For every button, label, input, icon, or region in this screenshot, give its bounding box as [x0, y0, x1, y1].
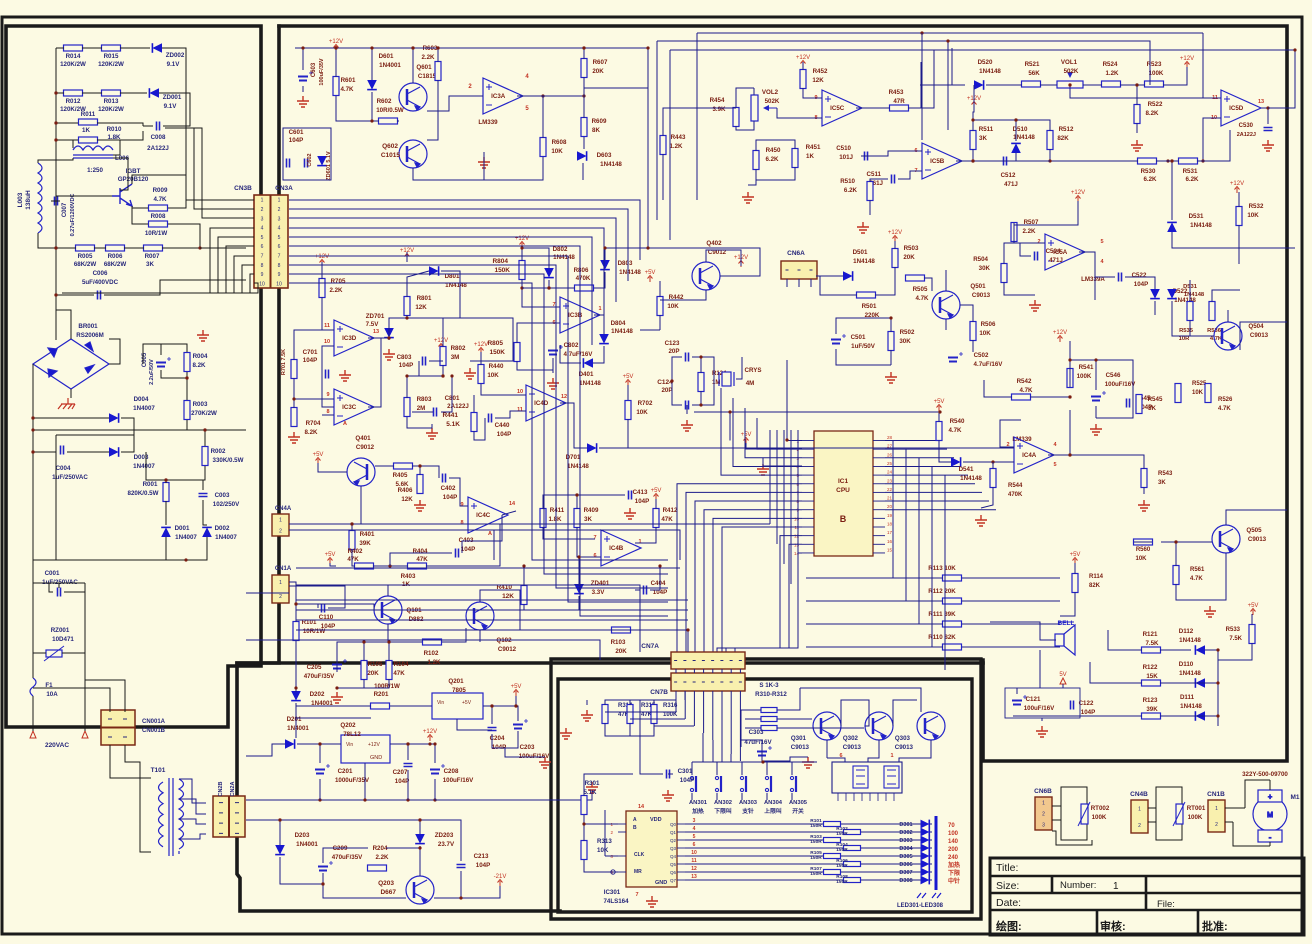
junction — [321, 882, 324, 885]
wire gnd pin4 — [763, 458, 802, 466]
svg-text:C9013: C9013 — [895, 744, 914, 751]
svg-text:C530: C530 — [1239, 123, 1254, 129]
svg-text:C9013: C9013 — [843, 744, 862, 751]
svg-text:1N4007: 1N4007 — [133, 463, 155, 470]
wire IC5D fb — [1203, 118, 1221, 161]
svg-text:CN6B: CN6B — [1034, 788, 1052, 795]
wire — [406, 252, 408, 262]
svg-text:File:: File: — [1157, 899, 1175, 910]
op-amp IC3C — [334, 389, 374, 425]
wire — [33, 505, 56, 560]
svg-text:R521: R521 — [1025, 61, 1040, 68]
svg-text:68K/2W: 68K/2W — [74, 261, 97, 268]
ground bus — [586, 782, 598, 793]
wire — [146, 452, 166, 480]
wire — [419, 846, 421, 848]
resistor R560 — [1134, 539, 1153, 545]
junction — [294, 686, 297, 689]
svg-text:23.7V: 23.7V — [438, 841, 455, 848]
svg-text:2.2K: 2.2K — [421, 54, 435, 61]
wire Q505 emit — [1176, 553, 1226, 600]
wire IC5D out — [1268, 50, 1295, 108]
svg-text:5: 5 — [693, 834, 696, 840]
wire gnd bus right — [435, 790, 592, 800]
svg-text:R201: R201 — [374, 691, 389, 698]
wire — [120, 131, 143, 140]
display board outer frame — [551, 659, 981, 919]
svg-text:4: 4 — [693, 826, 696, 832]
svg-text:R531: R531 — [1183, 168, 1198, 175]
svg-text:150R: 150R — [836, 847, 848, 853]
svg-text:CN2A: CN2A — [230, 781, 236, 796]
wire R110 left — [806, 646, 943, 648]
junction — [164, 478, 167, 481]
power +12V R452 — [801, 61, 806, 68]
wire Q301-Q302 net — [841, 700, 869, 726]
svg-text:1N4007: 1N4007 — [133, 405, 155, 412]
junction — [547, 286, 550, 289]
wire — [163, 120, 190, 126]
wire pin1 crystal — [787, 360, 802, 441]
resistor R121 — [1142, 647, 1161, 653]
wire R311 l — [745, 718, 761, 720]
wire C801 left — [412, 411, 433, 413]
svg-text:70: 70 — [948, 823, 955, 829]
wire R705 — [321, 262, 323, 279]
wire — [610, 629, 688, 631]
svg-text:Q601: Q601 — [416, 64, 432, 71]
wire IC4C out — [502, 511, 516, 515]
wire — [322, 414, 334, 416]
wire R454 top — [736, 88, 754, 108]
resistor R536 — [1209, 302, 1215, 321]
svg-text:CRYS: CRYS — [745, 367, 762, 374]
wire — [49, 583, 53, 592]
wire R544 top — [992, 462, 994, 469]
power +5V CPU — [744, 438, 749, 445]
wire to R801 — [389, 315, 407, 328]
svg-text:ZD203: ZD203 — [435, 832, 454, 839]
resistor R505 — [906, 275, 925, 281]
diode ZD002 — [152, 43, 162, 53]
svg-text:C007: C007 — [62, 202, 68, 217]
junction — [1170, 159, 1173, 162]
svg-text:C121: C121 — [1026, 696, 1041, 703]
junction — [699, 403, 702, 406]
wire IC5C out — [856, 107, 890, 109]
junction — [520, 286, 523, 289]
connector CN6B — [1035, 797, 1052, 830]
wire — [120, 47, 150, 49]
svg-text:Q302: Q302 — [843, 735, 859, 742]
wire CN7A-CN7B — [730, 669, 732, 673]
transistor Q601 — [399, 83, 427, 111]
wire button drop — [741, 762, 743, 775]
svg-text:5: 5 — [278, 235, 281, 241]
svg-text:1N4148: 1N4148 — [979, 68, 1001, 75]
wire CN3A fanout long — [289, 283, 668, 560]
svg-text:104P: 104P — [1081, 709, 1095, 716]
motor M1 — [1253, 790, 1287, 842]
junction — [278, 818, 281, 821]
junction — [433, 742, 436, 745]
wire IC4D-D701 — [560, 403, 587, 448]
svg-text:471J: 471J — [1049, 257, 1063, 264]
svg-text:D001: D001 — [175, 525, 190, 532]
svg-text:1N4001: 1N4001 — [287, 725, 309, 732]
wire to gnd — [505, 748, 545, 757]
wire button bot — [741, 793, 743, 800]
svg-text:R003: R003 — [193, 401, 208, 408]
wire R524-R523 — [1120, 84, 1145, 86]
wire R440-IC4D — [481, 384, 526, 395]
svg-text:R301: R301 — [585, 780, 600, 787]
svg-text:D203: D203 — [295, 832, 310, 839]
svg-text:+5V: +5V — [1070, 552, 1081, 558]
svg-text:1.2K: 1.2K — [1105, 70, 1119, 77]
wire ZD701 — [388, 328, 390, 338]
svg-text:审核:: 审核: — [1100, 919, 1126, 933]
junction — [991, 460, 994, 463]
wire CPU right bundle — [885, 509, 996, 511]
diode D601 — [367, 80, 377, 90]
junction — [699, 355, 702, 358]
resistor R526 — [1205, 384, 1211, 403]
wire — [166, 537, 207, 560]
wire — [32, 696, 34, 731]
wire C213 top — [420, 820, 461, 861]
junction — [387, 640, 390, 643]
ground R510 — [857, 222, 869, 233]
svg-text:R451: R451 — [806, 144, 821, 151]
wire D701-R702 — [599, 419, 628, 448]
junction — [1068, 83, 1071, 86]
wire CN3B pin up — [165, 128, 254, 218]
resistor R124 — [698, 373, 704, 392]
wire CPU pin bundle — [686, 492, 802, 652]
diode ZD601 — [317, 156, 327, 166]
svg-text:1.8K: 1.8K — [548, 516, 562, 523]
svg-text:+12V: +12V — [474, 342, 488, 348]
wire R806-D803 — [594, 272, 605, 288]
LED bus bar — [935, 816, 938, 890]
wire C546 top — [1070, 360, 1096, 390]
wire — [187, 429, 246, 431]
svg-text:CN4B: CN4B — [1130, 791, 1148, 798]
svg-text:C510: C510 — [836, 145, 851, 152]
svg-text:+12V: +12V — [1180, 56, 1194, 62]
wire CN3A fanout long — [289, 274, 668, 574]
wire to LED — [841, 839, 932, 841]
svg-text:7: 7 — [261, 253, 264, 259]
svg-text:C9013: C9013 — [972, 292, 991, 299]
wire vert bundle — [783, 430, 785, 564]
wire CPU right bundle — [885, 483, 975, 485]
wire CN3B pin up — [165, 128, 254, 200]
svg-text:10R: 10R — [1179, 336, 1190, 342]
wire D510 top — [973, 120, 1016, 141]
junction — [406, 742, 409, 745]
resistor R602 — [379, 118, 398, 124]
wire — [203, 480, 205, 490]
svg-text:150R: 150R — [810, 839, 822, 845]
wire IC301 out — [685, 823, 823, 825]
wire R506-C502 — [972, 340, 974, 352]
op-amp IC4C — [468, 497, 508, 533]
resistor R522 — [1134, 105, 1140, 124]
svg-text:C122: C122 — [1079, 700, 1094, 707]
wire — [412, 48, 414, 83]
wire +5V — [492, 696, 516, 706]
junction — [1068, 453, 1071, 456]
junction — [294, 602, 297, 605]
wire CN7A-CN7B — [684, 669, 686, 673]
resistor R104 — [386, 661, 392, 680]
svg-text:Vin: Vin — [437, 700, 444, 706]
svg-text:C303: C303 — [749, 729, 764, 736]
display pins — [838, 793, 894, 801]
svg-text:R006: R006 — [108, 253, 123, 260]
wire R301-IC301 — [584, 815, 618, 824]
svg-text:R411: R411 — [550, 507, 565, 514]
junction — [418, 464, 421, 467]
wire to LED — [841, 871, 932, 873]
svg-text:D304: D304 — [899, 846, 913, 852]
svg-text:104P: 104P — [476, 862, 490, 869]
wire CPU comb drop — [931, 466, 933, 647]
junction — [418, 818, 421, 821]
wire CN6B-RT002 b — [1052, 819, 1061, 821]
svg-text:RT002: RT002 — [1091, 805, 1110, 812]
svg-text:7.5K: 7.5K — [1145, 640, 1159, 647]
svg-text:7: 7 — [635, 892, 638, 898]
resistor R006 — [106, 245, 125, 251]
wire long h b — [296, 585, 640, 652]
svg-text:2: 2 — [1138, 823, 1141, 829]
wire R505-Q501 — [924, 278, 932, 291]
svg-text:R440: R440 — [489, 363, 504, 370]
wire R403 right — [426, 524, 500, 566]
svg-text:8: 8 — [278, 263, 281, 269]
wire R452-IC5C — [803, 88, 822, 98]
svg-text:5.1K: 5.1K — [446, 421, 460, 428]
svg-text:IC3B: IC3B — [568, 312, 583, 319]
svg-text:BELL: BELL — [1058, 620, 1075, 627]
svg-text:1N4148: 1N4148 — [600, 161, 622, 168]
svg-text:AN303: AN303 — [739, 800, 758, 806]
resistor R512 — [1047, 131, 1053, 150]
wire button bot — [716, 793, 718, 800]
diode D306 — [921, 860, 930, 869]
resistor R701 — [291, 360, 297, 379]
svg-text:R008: R008 — [151, 213, 166, 220]
svg-text:4: 4 — [278, 226, 281, 232]
wire CPU right bundle — [885, 500, 989, 502]
wire CN7B down — [693, 691, 695, 726]
junction — [520, 246, 523, 249]
wire C303 gnd — [762, 757, 808, 761]
resistor R503 — [892, 249, 898, 268]
wire R315 top — [629, 700, 631, 705]
wire Q505 coll — [1226, 510, 1287, 525]
svg-text:+12V: +12V — [1053, 330, 1067, 336]
wire R443 down — [662, 154, 664, 200]
svg-text:10R/1W: 10R/1W — [145, 230, 168, 237]
resistor R403 — [408, 563, 427, 569]
svg-text:R405: R405 — [393, 472, 408, 479]
wire low bundle — [296, 609, 688, 611]
svg-text:+: + — [1268, 794, 1272, 801]
wire R802 top — [442, 318, 444, 347]
wire R504 top — [1004, 243, 1014, 264]
svg-text:加热: 加热 — [947, 861, 960, 869]
svg-text:100uF/16V: 100uF/16V — [1105, 381, 1136, 388]
wire C209 — [322, 873, 324, 884]
ground C546 — [1090, 424, 1102, 435]
diode D201 — [285, 739, 295, 749]
svg-text:R004: R004 — [193, 353, 208, 360]
power +12V R541 — [1058, 336, 1063, 343]
wire into CN7A — [687, 630, 689, 652]
wire CN7A-CN7B — [703, 669, 705, 673]
transistor Q602 — [399, 140, 427, 168]
wire C110 — [296, 604, 318, 608]
junction — [203, 428, 206, 431]
wire R312 r — [777, 727, 864, 729]
wire — [162, 48, 186, 93]
junction — [54, 293, 57, 296]
wire Q501 emit — [945, 319, 947, 330]
svg-text:R504: R504 — [973, 256, 988, 263]
svg-text:R601: R601 — [341, 77, 356, 84]
diode D701 — [587, 443, 597, 453]
ground Q505 — [1204, 606, 1216, 617]
svg-text:104P: 104P — [289, 137, 303, 144]
wire R314 bot — [605, 723, 630, 736]
svg-text:D302: D302 — [899, 830, 912, 836]
svg-text:3.3V: 3.3V — [592, 589, 606, 596]
wire D701 right — [628, 447, 776, 449]
svg-text:D303: D303 — [899, 838, 912, 844]
svg-text:10: 10 — [691, 850, 697, 856]
svg-text:2A122J: 2A122J — [147, 145, 169, 152]
junction — [522, 564, 525, 567]
junction — [490, 704, 493, 707]
svg-text:10K: 10K — [636, 409, 648, 416]
junction — [971, 118, 974, 121]
resistor R702 — [625, 401, 631, 420]
capacitor C207 — [404, 764, 413, 767]
transistor Q102 — [466, 602, 494, 630]
ground left2 — [560, 728, 572, 739]
diode D522 — [1150, 289, 1160, 299]
wire CN7A-CN7B — [712, 669, 714, 673]
svg-text:120K/2W: 120K/2W — [98, 61, 124, 68]
wire — [97, 140, 120, 148]
op-amp IC4B — [601, 530, 641, 566]
wire R201 to 7805 — [390, 705, 432, 707]
svg-text:M: M — [1267, 812, 1273, 819]
svg-text:BR001: BR001 — [78, 323, 98, 330]
wire R409-IC4B — [577, 527, 601, 557]
svg-text:D004: D004 — [134, 396, 149, 403]
junction — [31, 428, 34, 431]
resistor R525 — [1175, 384, 1181, 403]
junction — [198, 246, 201, 249]
wire CN7A-CN7B — [721, 669, 723, 673]
wire — [364, 679, 389, 688]
svg-text:C207: C207 — [393, 769, 408, 776]
wire — [56, 92, 64, 94]
wire bus3 drop — [656, 41, 658, 220]
svg-text:10K: 10K — [667, 303, 679, 310]
wire — [295, 47, 648, 49]
wire CN6B-RT002 a — [1052, 805, 1061, 807]
svg-text:2.2K: 2.2K — [329, 287, 343, 294]
wire C440-IC4D — [495, 411, 526, 418]
wire CN7B down — [721, 691, 723, 747]
capacitor C701 — [326, 370, 329, 379]
svg-text:L003: L003 — [17, 192, 24, 207]
svg-text:下限叫: 下限叫 — [714, 807, 732, 815]
wire CPU right bundle — [885, 448, 947, 450]
svg-text:7: 7 — [593, 535, 596, 541]
wire IC3C out — [368, 338, 381, 407]
svg-text:10: 10 — [259, 281, 265, 287]
resistor R103 — [824, 838, 841, 843]
wire R701 — [294, 330, 334, 360]
junction — [387, 640, 390, 643]
wire CPU comb drop — [918, 458, 920, 624]
svg-text:200: 200 — [948, 847, 959, 853]
wire R532 top — [1238, 192, 1240, 207]
capacitor C402 — [443, 474, 446, 483]
wire CN4B-RT001 b — [1148, 821, 1156, 823]
svg-text:+5V: +5V — [651, 488, 662, 494]
wire R804-IC3B — [522, 279, 560, 307]
resistor R301 — [581, 796, 587, 815]
wire R401 — [351, 524, 353, 531]
svg-text:470K: 470K — [1008, 492, 1023, 498]
wire gnd — [586, 700, 588, 705]
wire vert bundle — [776, 430, 778, 544]
svg-text:R402: R402 — [348, 548, 363, 555]
svg-text:R560: R560 — [1136, 547, 1151, 553]
svg-text:AN305: AN305 — [789, 800, 808, 806]
wire IC301 out — [685, 855, 823, 857]
svg-text:1: 1 — [1138, 806, 1141, 812]
wire C546 gnd — [1095, 406, 1097, 418]
wire CN3A fanout long — [289, 246, 668, 616]
svg-text:14: 14 — [509, 501, 516, 507]
wire — [56, 200, 60, 202]
svg-text:2: 2 — [1215, 822, 1218, 828]
capacitor C803 — [423, 357, 426, 366]
wire R536 top — [1212, 290, 1240, 302]
wire CPU pin bundle — [713, 518, 802, 652]
svg-text:820K/0.5W: 820K/0.5W — [128, 490, 159, 497]
button AN304 — [765, 776, 771, 792]
wire — [82, 92, 102, 94]
svg-text:R533: R533 — [1226, 627, 1241, 633]
transistor Q504 — [1214, 322, 1242, 350]
button AN301 — [690, 776, 696, 792]
wire to crystal — [701, 357, 714, 379]
wire R607 top — [583, 48, 585, 59]
svg-text:CN3B: CN3B — [234, 185, 252, 192]
wire CPU right bundle — [885, 474, 968, 476]
crystal CRYS — [719, 372, 734, 386]
